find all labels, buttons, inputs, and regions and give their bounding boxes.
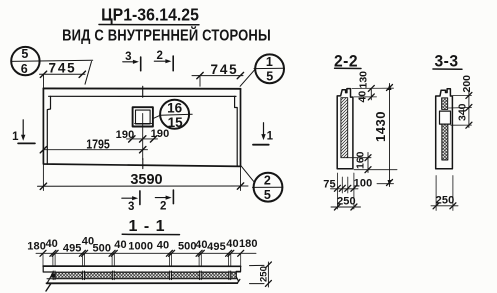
panel left inner profile bbox=[47, 96, 50, 164]
label 2-2 bbox=[334, 52, 361, 71]
section 2-2 dim 160 bbox=[348, 151, 397, 172]
bottom dim row texts bbox=[27, 235, 257, 254]
svg-text:745: 745 bbox=[211, 62, 239, 77]
section 3-3 lower core bbox=[442, 124, 448, 160]
svg-text:5: 5 bbox=[264, 188, 271, 202]
dimension 3590 bbox=[38, 165, 249, 191]
svg-text:190: 190 bbox=[116, 129, 135, 141]
section 2-2 dim chain 75/100 bbox=[323, 178, 372, 192]
title underline bbox=[99, 24, 199, 26]
svg-text:2: 2 bbox=[160, 200, 167, 212]
panel top centerline tick bbox=[142, 86, 144, 97]
section 1-1 right end profile bbox=[236, 266, 240, 283]
section 1-1 ribs bbox=[53, 271, 231, 280]
svg-text:250: 250 bbox=[259, 266, 270, 282]
panel top band inner line bbox=[49, 95, 236, 97]
leader to callout 16/15 bbox=[153, 115, 161, 119]
section 1-1 weld mark bbox=[51, 274, 55, 278]
subtitle ВИД С ВНУТРЕННЕЙ СТОРОНЫ bbox=[62, 25, 271, 44]
leader to circle 2/5 bbox=[241, 166, 255, 183]
svg-text:745: 745 bbox=[49, 60, 77, 75]
svg-text:495: 495 bbox=[63, 243, 82, 255]
section 3-3 upper core bbox=[442, 98, 448, 110]
label 3-3 bbox=[433, 52, 462, 71]
panel bottom centerline tick bbox=[142, 159, 144, 169]
section 3-3 dim 250 bbox=[431, 176, 458, 211]
section mark 3 bottom bbox=[122, 191, 140, 213]
svg-text:180: 180 bbox=[239, 238, 258, 250]
opening square outer bbox=[133, 107, 153, 126]
section mark 1 right bbox=[253, 123, 274, 145]
svg-text:40: 40 bbox=[195, 239, 207, 251]
callout circle 2/5 bbox=[253, 173, 283, 202]
svg-text:40: 40 bbox=[357, 91, 369, 103]
svg-text:6: 6 bbox=[21, 62, 28, 76]
svg-text:1: 1 bbox=[12, 131, 19, 143]
section 1-1 bottom chord line bbox=[47, 282, 238, 284]
svg-text:3: 3 bbox=[128, 201, 135, 213]
opening centerline vertical bbox=[142, 114, 144, 160]
bottom dim chain line bbox=[36, 252, 256, 254]
svg-text:160: 160 bbox=[355, 151, 367, 169]
svg-text:130: 130 bbox=[358, 71, 370, 89]
svg-text:5: 5 bbox=[266, 70, 273, 84]
svg-text:3: 3 bbox=[125, 51, 132, 63]
svg-text:40: 40 bbox=[114, 239, 126, 251]
svg-text:100: 100 bbox=[354, 178, 373, 190]
callout circle 16/15 bbox=[160, 100, 192, 130]
svg-text:500: 500 bbox=[92, 243, 111, 255]
section 2-2 bottom extension lines bbox=[337, 173, 354, 209]
svg-text:3590: 3590 bbox=[130, 172, 162, 188]
svg-text:1795: 1795 bbox=[86, 138, 110, 152]
svg-text:75: 75 bbox=[323, 179, 335, 191]
svg-text:16: 16 bbox=[167, 101, 183, 116]
svg-text:190: 190 bbox=[151, 128, 170, 140]
section 2-2 dim 1430 bbox=[373, 84, 394, 187]
dimension 190 190 bbox=[116, 128, 170, 142]
section 1-1 band top line bbox=[53, 271, 241, 273]
section 3-3 right dims 200/340 bbox=[449, 75, 474, 128]
panel right inner profile bbox=[235, 96, 238, 166]
callout circle 5/6 bbox=[11, 47, 39, 76]
dimension 250 right of section 1-1 bbox=[250, 262, 272, 287]
bottom extension lines bbox=[43, 253, 241, 266]
oblique extension to panel corner bbox=[85, 62, 92, 85]
svg-text:ВИД С ВНУТРЕННЕЙ СТОРОНЫ: ВИД С ВНУТРЕННЕЙ СТОРОНЫ bbox=[62, 25, 271, 44]
bottom dim ticks bbox=[40, 250, 244, 256]
section 2-2 body outline bbox=[337, 89, 353, 169]
svg-text:1430: 1430 bbox=[373, 111, 388, 142]
dimension 745 right bbox=[192, 62, 244, 87]
svg-text:2: 2 bbox=[156, 50, 163, 62]
section 1-1 left end profile bbox=[43, 266, 53, 291]
svg-text:1 - 1: 1 - 1 bbox=[128, 218, 165, 235]
dimension 1795 bbox=[40, 138, 147, 153]
svg-text:ЦР1-36.14.25: ЦР1-36.14.25 bbox=[101, 5, 199, 25]
svg-text:495: 495 bbox=[207, 241, 226, 253]
opening square inner bbox=[136, 110, 151, 124]
leader to circle 1/5 bbox=[240, 69, 255, 86]
svg-text:250: 250 bbox=[436, 194, 455, 206]
section mark 3 top bbox=[123, 51, 141, 71]
section mark 1 left bbox=[12, 120, 35, 144]
svg-text:1: 1 bbox=[267, 131, 274, 143]
section 1-1 hatch segments bbox=[56, 273, 237, 279]
svg-text:40: 40 bbox=[45, 238, 57, 250]
section 1-1 top chord line bbox=[43, 265, 240, 267]
label 1 - 1 bbox=[122, 218, 179, 235]
section 3-3 notch box bbox=[440, 111, 451, 124]
section mark 2 bottom bbox=[155, 190, 173, 212]
dimension 745 left bbox=[40, 60, 86, 88]
section 1-1 band bottom line bbox=[47, 278, 237, 280]
section 3-3 body outline bbox=[436, 89, 453, 169]
title text ЦР1-36.14.25 bbox=[101, 5, 199, 25]
svg-text:3-3: 3-3 bbox=[435, 52, 459, 71]
svg-text:250: 250 bbox=[337, 196, 356, 208]
svg-text:180: 180 bbox=[27, 241, 46, 253]
divider line from circle 5/6 bbox=[11, 60, 93, 61]
section 2-2 core strip bbox=[341, 98, 348, 158]
svg-text:5: 5 bbox=[21, 47, 28, 61]
section mark 2 top bbox=[154, 50, 173, 71]
opening cross horizontal bbox=[135, 122, 153, 124]
svg-text:40: 40 bbox=[226, 238, 238, 250]
svg-text:1: 1 bbox=[266, 55, 273, 69]
section 2-2 dim 250 bbox=[331, 196, 361, 211]
svg-text:340: 340 bbox=[456, 103, 468, 121]
svg-text:2: 2 bbox=[264, 174, 271, 188]
svg-text:15: 15 bbox=[168, 115, 184, 130]
panel outline bbox=[43, 88, 240, 166]
section 2-2 right dims 130/40 bbox=[352, 71, 394, 103]
svg-text:500: 500 bbox=[178, 240, 197, 252]
svg-text:1000: 1000 bbox=[128, 240, 153, 252]
svg-text:40: 40 bbox=[157, 240, 169, 252]
callout circle 1/5 bbox=[254, 54, 284, 83]
svg-text:200: 200 bbox=[461, 75, 473, 93]
